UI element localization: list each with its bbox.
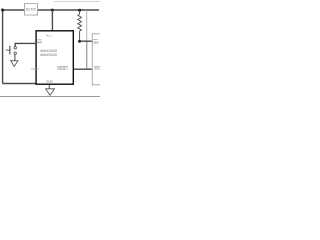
svg-text:PWRT: PWRT: [31, 67, 39, 71]
wire: GND stub below IC: [48, 85, 50, 89]
top separator rule: [54, 1, 100, 3]
wire: NMI wire to uP: [80, 40, 93, 42]
wire: switch bottom contact to ground: [14, 55, 16, 61]
svg-text:DC/DC: DC/DC: [26, 8, 37, 12]
wire: VCC stub into IC: [51, 10, 53, 31]
wire: VCC top rail: [3, 9, 99, 11]
wire: vertical wire rail-to-reset-line: [86, 10, 88, 41]
node: junction dot at VCC stub: [51, 9, 54, 12]
svg-text:MAX6440: MAX6440: [40, 53, 58, 57]
resistor R1 pull-up: [78, 10, 82, 41]
node: junction dot resistor bottom / NMI wire: [78, 40, 81, 43]
switch S1: manual reset pushbutton: [6, 49, 10, 51]
wire: bottom ground rail: [3, 83, 37, 85]
bottom separator rule: [0, 96, 100, 98]
svg-text:NMI: NMI: [93, 40, 99, 44]
wire: RESET wire IC to uP: [74, 68, 93, 70]
node: junction dot top-left: [1, 9, 4, 12]
node: junction dot at resistor top: [78, 9, 81, 12]
microprocessor uP box: [92, 34, 104, 85]
wire: left vertical rail: [2, 10, 4, 84]
svg-text:RESET: RESET: [57, 67, 68, 71]
ground symbol at switch: [11, 61, 18, 67]
DC/DC converter box: [25, 4, 38, 15]
svg-text:RESET: RESET: [94, 67, 100, 71]
wire: switch top contact to MR: [15, 43, 36, 46]
ground symbol at IC GND: [46, 89, 55, 96]
svg-text:MR: MR: [37, 40, 43, 44]
op-amp U1: supervisor IC MAX6439/MAX6440 box: [36, 31, 73, 84]
svg-text:GND: GND: [46, 80, 54, 84]
